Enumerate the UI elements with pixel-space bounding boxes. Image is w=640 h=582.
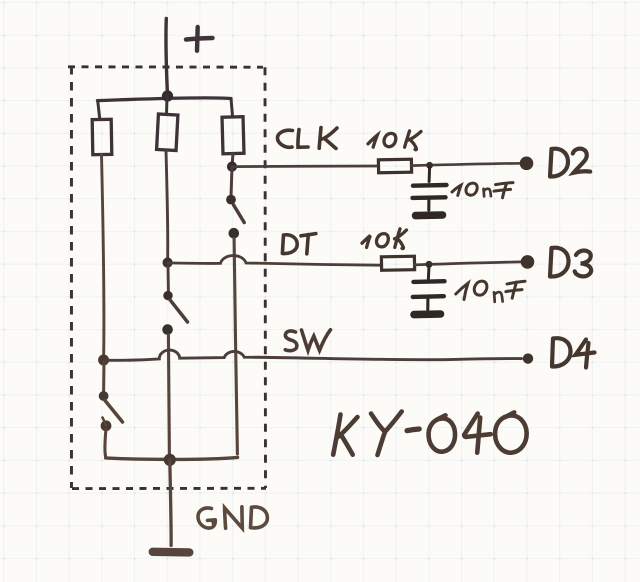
label 10K (DT) <box>362 229 407 249</box>
label D2 <box>550 149 590 177</box>
wire: +V supply <box>166 19 168 97</box>
resistor 10K (DT) <box>381 256 414 270</box>
label 10nF (DT) <box>456 281 525 302</box>
pullup resistor (DT column) <box>157 96 178 150</box>
wire: SW node to D4 (hops over DT and CLK columns) <box>104 350 522 360</box>
wire: R(CLK) to CLK node <box>232 154 233 167</box>
wire: DT node to filter (hops over CLK column) <box>168 256 382 266</box>
junction: common/GND <box>164 454 176 466</box>
label GND <box>198 507 267 529</box>
label CLK <box>277 128 337 149</box>
wire: filter to D3 <box>415 262 523 265</box>
encoder switch A (CLK) <box>226 167 244 239</box>
pullup resistor (SW column) <box>92 101 112 155</box>
junction: supply/bus <box>162 90 173 101</box>
label KY-040 <box>333 412 526 456</box>
junction: SW node <box>98 355 109 366</box>
pin D4 terminal dot <box>523 353 533 363</box>
wire: CLK node to filter <box>232 165 379 168</box>
capacitor 10nF (DT) <box>413 266 445 310</box>
pin D3 terminal dot <box>521 255 535 269</box>
wire: GND stem <box>170 460 171 546</box>
junction: CLK filter node <box>426 162 433 169</box>
wire: SW switch to common (corner) <box>103 430 107 457</box>
ground (DT filter) <box>414 310 441 318</box>
pin D2 terminal dot <box>520 157 534 171</box>
junction: DT node <box>163 258 173 268</box>
wire: supply bus <box>98 98 232 101</box>
pullup resistor (CLK column) <box>222 99 244 154</box>
junction: CLK node <box>227 162 237 172</box>
label SW <box>285 330 330 351</box>
junction: DT filter node <box>426 261 433 268</box>
encoder switch (push button SW) <box>99 362 123 431</box>
label 10nF (CLK) <box>452 183 513 198</box>
wire: common bottom <box>106 457 238 459</box>
ground (CLK filter) <box>416 211 443 219</box>
wire: R(SW) to SW node <box>102 155 104 359</box>
+ symbol (supply polarity) <box>186 27 213 51</box>
label 10K (CLK) <box>368 131 421 150</box>
wire: CLK switch to common <box>234 239 237 455</box>
label DT <box>282 234 315 254</box>
wire: DT switch to common <box>168 335 169 456</box>
capacitor 10nF (CLK) <box>413 167 447 210</box>
KY-040 module dashed outline <box>68 66 266 489</box>
encoder switch B (DT) <box>162 266 187 335</box>
wire: R(DT) to DT node <box>166 151 168 263</box>
label D3 <box>550 248 591 277</box>
ground symbol (module GND) <box>153 548 190 557</box>
label D4 <box>552 338 595 367</box>
wire: filter to D2 <box>412 163 522 165</box>
resistor 10K (CLK) <box>378 159 411 173</box>
